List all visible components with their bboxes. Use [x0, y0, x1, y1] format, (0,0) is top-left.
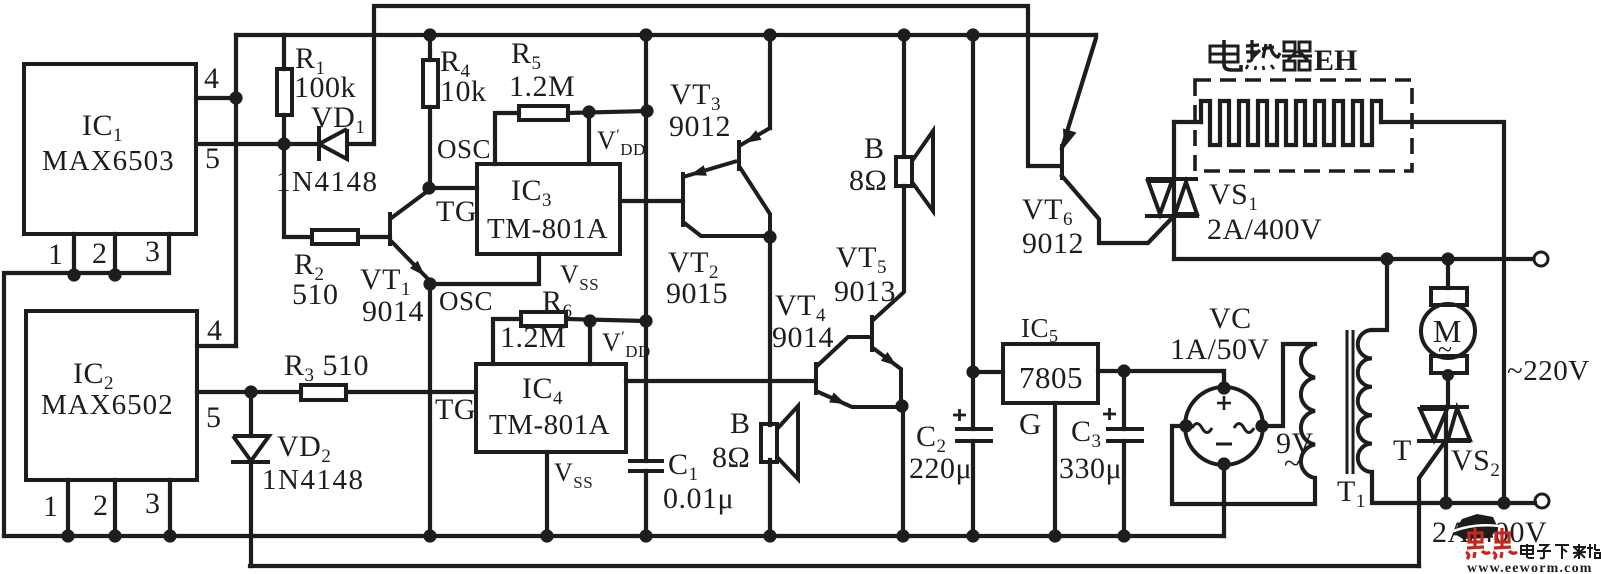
node dot bridge right	[1255, 419, 1268, 432]
svg-text:TG: TG	[436, 195, 477, 228]
wire IC2 pin1 stub	[66, 480, 70, 536]
svg-text:OSC: OSC	[437, 134, 491, 164]
svg-text:G: G	[1019, 406, 1042, 441]
node dot R4 top on bus	[423, 28, 436, 41]
transistor VT5 9013	[872, 292, 904, 406]
wire R6 left lead to IC4 OSC pin	[493, 319, 521, 364]
diode VD1	[319, 126, 347, 161]
svg-text:9012: 9012	[669, 110, 731, 143]
svg-text:9012: 9012	[1022, 227, 1084, 260]
node dot VDD rail lower	[639, 314, 652, 327]
svg-text:1N4148: 1N4148	[262, 464, 364, 496]
resistor R1 body	[277, 69, 292, 115]
wire R3 node TG line to IC4	[197, 390, 476, 394]
wire VS1 main vertical	[1172, 122, 1176, 259]
transistor VT2 9015	[683, 161, 768, 236]
speaker B upper	[896, 131, 933, 211]
wire IC1 pins rail and left drop	[4, 234, 169, 536]
bridge rectifier VC circle	[1185, 387, 1263, 465]
node dot IC1 pin4 junction	[229, 91, 242, 104]
heater label: hand-drawn 热 glyph	[1246, 40, 1280, 70]
emitter arrow VT4	[829, 393, 846, 405]
node dot motor bottom	[1442, 369, 1454, 381]
emitter arrow VT1	[410, 261, 425, 276]
capacitor C1 plates	[628, 461, 664, 471]
capacitor C2 plates	[955, 429, 993, 441]
node dot R1/VD1/pin5	[277, 137, 290, 150]
svg-text:1: 1	[48, 238, 64, 271]
node dot TG	[422, 181, 435, 194]
wire C3 branch	[1122, 371, 1126, 536]
wire upper speaker branch from bus	[902, 35, 906, 291]
svg-text:TM-801A: TM-801A	[489, 409, 610, 441]
svg-text:2: 2	[93, 489, 109, 522]
wire VT4/VT5 emitter node to ground	[901, 406, 905, 536]
IC2 MAX6502 box	[26, 311, 197, 480]
wire heater exit to right vertical	[1381, 122, 1504, 503]
svg-text:VC: VC	[1209, 302, 1252, 335]
wire top control line VD1 to VT6	[374, 6, 1060, 166]
wire R5 left lead to IC3 OSC pin	[495, 113, 519, 164]
node dot right vertical bottom	[1497, 496, 1510, 509]
bridge internal marks	[1217, 396, 1231, 410]
wire IC4 VSS stub to ground	[545, 452, 549, 536]
node dot R6 right VDD'	[583, 314, 596, 327]
wire C2 branch from bus to ground	[971, 35, 975, 536]
svg-text:B: B	[864, 132, 885, 165]
diode VD2	[231, 436, 270, 462]
svg-text:10k: 10k	[440, 75, 487, 108]
wire bridge + top lead	[1222, 371, 1226, 388]
svg-text:OSC: OSC	[439, 286, 493, 316]
svg-text:8Ω: 8Ω	[849, 164, 887, 197]
svg-text:www.eeworm.com: www.eeworm.com	[1467, 561, 1593, 574]
wire heater entry	[1174, 120, 1201, 124]
node dot 7805 output C3	[1117, 364, 1130, 377]
wire T1 primary top lead	[1372, 259, 1387, 330]
triac VS1	[1145, 179, 1199, 216]
svg-text:TM-801A: TM-801A	[487, 213, 608, 245]
node dot VDD rail upper	[640, 104, 653, 117]
ground bus dots	[61, 529, 74, 542]
wire IC3 output to VT2 base	[620, 199, 683, 203]
node dot T1 primary top	[1380, 252, 1393, 265]
wire IC2 pin4	[197, 344, 236, 348]
resistor R5 body	[519, 106, 568, 120]
transistor VT6 9012	[1060, 144, 1064, 180]
wire IC2 pin3 stub	[168, 480, 172, 536]
speaker B lower	[761, 406, 798, 479]
wire VT2 VT3 collectors node down through speaker B to ground	[768, 237, 772, 536]
svg-text:3: 3	[145, 235, 161, 268]
heating element meander	[1201, 101, 1381, 145]
emitter arrow VT6	[1063, 129, 1077, 149]
wire T1 secondary bottom / bridge AC loop	[1172, 426, 1315, 504]
svg-text:9015: 9015	[666, 277, 728, 310]
wire IC1 pin5 to node	[196, 142, 277, 146]
svg-text:MAX6503: MAX6503	[42, 145, 175, 177]
svg-text:9014: 9014	[362, 295, 424, 328]
wire IC4 VDD' stub	[588, 321, 592, 364]
IC3 TM-801A box	[477, 164, 620, 254]
resistor R2 body	[312, 230, 358, 244]
terminal circle right bottom	[1535, 494, 1549, 508]
transformer T1 primary winding	[1358, 330, 1372, 472]
node dot IC1 rail 2	[108, 268, 121, 281]
wire IC2 pin2 stub	[113, 480, 117, 536]
wire VS1 output line to terminal	[1174, 257, 1533, 261]
watermark 电子下载站 glyphs	[1521, 544, 1600, 559]
IC1 MAX6503 box	[24, 64, 196, 234]
wire ground bus y=536	[4, 534, 1224, 538]
svg-text:9013: 9013	[834, 275, 896, 308]
terminal circle right top	[1534, 252, 1548, 266]
plus sign C3	[1103, 408, 1116, 420]
svg-text:1N4148: 1N4148	[276, 166, 378, 198]
svg-text:5: 5	[205, 142, 221, 175]
emitter arrow VT3	[745, 130, 762, 143]
transistor VT4 9014	[816, 337, 903, 407]
transistor VT3 9012	[739, 128, 770, 237]
wire vertical IC1 pin4 to IC2 pin4	[234, 35, 238, 346]
svg-text:R3 510: R3 510	[284, 349, 369, 386]
svg-text:1.2M: 1.2M	[509, 70, 575, 103]
svg-text:~: ~	[1284, 447, 1301, 480]
black ink blot over 2A/400V	[1453, 514, 1498, 539]
svg-text:100k: 100k	[294, 71, 356, 104]
heater EH dashed box	[1195, 80, 1412, 171]
svg-text:510: 510	[292, 278, 339, 311]
wire VT6 collector to VS1 gate	[1062, 176, 1172, 243]
heater label: hand-drawn 器 glyph	[1282, 42, 1312, 70]
wire VD1 leads	[284, 142, 374, 146]
transformer T1 secondary winding	[1301, 344, 1315, 478]
wire OSC node to ground	[428, 284, 432, 536]
wire motor branch	[1446, 259, 1450, 407]
wire IC1 pin2 stub	[113, 234, 117, 275]
node dot VS2 bottom	[1439, 496, 1452, 509]
svg-text:T: T	[1393, 434, 1412, 467]
node dot OSC/VT1 emitter	[423, 277, 436, 290]
svg-text:MAX6502: MAX6502	[41, 389, 174, 421]
svg-text:0.01μ: 0.01μ	[663, 482, 734, 515]
watermark red bug 1	[1466, 528, 1490, 559]
node dot IC1 rail 1	[67, 268, 80, 281]
IC4 TM-801A box	[476, 364, 626, 452]
node dot bridge left	[1179, 419, 1192, 432]
wire VS2 gate to bottom rail	[1419, 443, 1444, 566]
svg-text:TG: TG	[435, 393, 476, 426]
wire VT3 emitter to bus	[768, 35, 772, 128]
wire 7805 output to bridge +	[1098, 371, 1224, 388]
wire VT6 emitter to bus corner	[1062, 35, 1096, 148]
svg-text:~220V: ~220V	[1507, 355, 1590, 387]
plus sign C2	[953, 409, 966, 421]
resistor R6 body	[521, 312, 566, 326]
wire R5 right to VDD rail	[568, 111, 648, 113]
wire node down to R2	[284, 144, 312, 237]
svg-text:4: 4	[204, 62, 220, 95]
node dot R3/VD2 node	[244, 385, 257, 398]
transistor VT1 9014	[390, 190, 429, 280]
node dot VT2/VT3 collector	[763, 230, 776, 243]
node dot R5 right VDD'	[582, 105, 595, 118]
wire VS2 vertical	[1444, 407, 1448, 503]
svg-text:B: B	[730, 407, 751, 440]
svg-text:1A/50V: 1A/50V	[1170, 333, 1270, 366]
emitter arrow VT5	[881, 352, 897, 366]
wire IC4 output to VT4 base	[626, 379, 816, 383]
wire R1 leads	[282, 35, 286, 146]
wire OSC node to IC3 VSS	[429, 254, 539, 284]
node dot C2 branch on bus	[966, 28, 979, 41]
wire 7805 G stub	[1053, 403, 1057, 536]
wire +V bus y=35	[236, 33, 1096, 37]
wire VDD rail vertical x=646	[644, 35, 648, 536]
svg-text:1: 1	[43, 490, 59, 523]
wire TG node to IC3	[429, 186, 477, 190]
svg-text:9014: 9014	[772, 321, 834, 354]
svg-text:2: 2	[92, 237, 108, 270]
emitter arrow VT2	[690, 165, 707, 176]
node dot upper speaker on bus	[897, 28, 910, 41]
node dot 7805 input	[966, 365, 979, 378]
svg-text:1.2M: 1.2M	[500, 321, 566, 354]
svg-text:5: 5	[206, 401, 222, 434]
wire R4 leads	[428, 35, 432, 188]
svg-text:~: ~	[1438, 335, 1453, 364]
wire R6 right to VDD rail	[566, 319, 646, 321]
wire T1 primary bottom to output line	[1372, 472, 1535, 503]
svg-text:7805: 7805	[1019, 360, 1083, 395]
svg-text:330μ: 330μ	[1059, 452, 1122, 485]
heater label: hand-drawn 电 glyph	[1210, 40, 1241, 70]
watermark red bug 2	[1493, 528, 1517, 559]
svg-text:8Ω: 8Ω	[712, 441, 750, 474]
node dot VDD rail on bus	[639, 28, 652, 41]
svg-text:2A/400V: 2A/400V	[1207, 213, 1322, 246]
svg-text:220μ: 220μ	[909, 452, 972, 485]
node dot VT3 emitter on bus	[763, 28, 776, 41]
wire 7805 input	[973, 370, 1003, 374]
resistor R3 body	[301, 385, 346, 400]
svg-text:EH: EH	[1314, 44, 1357, 77]
wire bridge right AC to T1 secondary top	[1262, 344, 1315, 426]
wire VD2 branch down to bottom rail	[249, 392, 253, 566]
node dot bridge bottom	[1217, 457, 1230, 470]
wire IC1 pin4	[196, 96, 236, 100]
wire IC3 VDD' stub	[587, 112, 591, 164]
wire bridge - to ground bus	[1222, 464, 1226, 536]
node dot bridge top	[1217, 381, 1230, 394]
motor M brushes and body	[1431, 288, 1467, 305]
capacitor C3 plates	[1106, 429, 1144, 441]
wire bottom rail (VS2 gate rail)	[250, 564, 1419, 568]
triac VS2	[1417, 407, 1471, 441]
transformer T1 core	[1347, 330, 1353, 474]
wire R2 to VT1 base	[358, 235, 390, 239]
IC5 7805 box	[1003, 344, 1098, 403]
node dot motor top	[1441, 252, 1454, 265]
resistor R4 body	[423, 60, 438, 107]
node dot VT4/VT5 emitters	[895, 399, 908, 412]
svg-text:3: 3	[145, 487, 161, 520]
wire IC1 pin1 stub	[72, 234, 76, 275]
svg-text:4: 4	[207, 314, 223, 347]
